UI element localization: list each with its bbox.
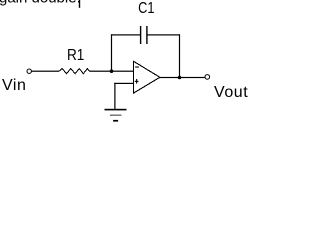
wire Vin to R1 [31, 71, 59, 72]
svg-text:Vin: Vin [2, 77, 26, 94]
wire feedback left vertical [111, 34, 112, 71]
wire feedback top-left segment [111, 34, 140, 35]
svg-text:C1: C1 [138, 0, 154, 17]
wire feedback top-right segment [148, 34, 181, 35]
terminal Vin [27, 69, 31, 73]
wire non-inverting input to ground (horizontal) [114, 83, 133, 84]
wire feedback right vertical [179, 34, 180, 78]
svg-text:gain double.: gain double. [0, 0, 81, 7]
terminal Vout [205, 75, 210, 80]
svg-text:R1: R1 [67, 47, 84, 64]
op-amp minus sign [135, 67, 139, 68]
junction node at inverting input [110, 69, 114, 73]
ground [105, 109, 127, 122]
wire op-amp output to Vout terminal [159, 77, 205, 78]
op-amp plus sign [135, 79, 139, 84]
capacitor C1 [140, 26, 148, 44]
op-amp U1 [133, 61, 160, 93]
resistor R1 [59, 69, 90, 74]
svg-text:Vout: Vout [214, 84, 248, 101]
wire non-inverting input to ground (vertical) [114, 83, 115, 110]
junction node at output [178, 76, 182, 80]
text cursor [79, 0, 80, 8]
wire R1 to inverting input [90, 71, 134, 72]
